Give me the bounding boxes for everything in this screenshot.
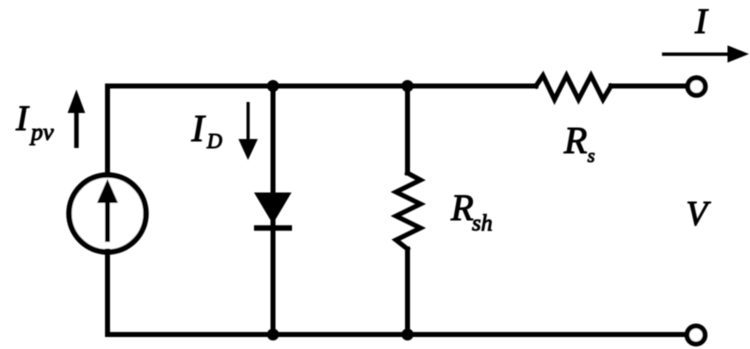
wire top rail <box>108 84 537 89</box>
node junction bottom shunt <box>402 329 414 341</box>
node junction bottom diode <box>267 329 279 341</box>
terminal top output <box>688 78 706 96</box>
arrow I_pv up <box>68 90 86 149</box>
resistor R_s <box>536 76 611 100</box>
node junction top shunt <box>402 80 414 92</box>
svg-text:s: s <box>588 146 595 167</box>
wire shunt branch lower <box>405 249 410 335</box>
current source U1 circle <box>69 175 146 252</box>
svg-text:R: R <box>563 120 587 162</box>
node junction top diode <box>267 80 279 92</box>
diode D1 <box>254 193 292 229</box>
terminal bottom output <box>687 326 705 344</box>
wire shunt branch upper <box>405 86 410 173</box>
svg-text:pv: pv <box>29 120 54 146</box>
svg-text:D: D <box>206 129 222 153</box>
svg-text:I: I <box>15 98 30 138</box>
wire top right to terminal <box>611 84 687 89</box>
wire diode branch <box>271 86 276 335</box>
wire bottom rail <box>108 332 686 337</box>
wire left vertical upper <box>105 86 110 176</box>
current source arrow <box>97 179 118 242</box>
svg-text:R: R <box>450 188 474 229</box>
wire left vertical lower <box>105 251 110 335</box>
svg-text:V: V <box>686 194 711 233</box>
resistor R_sh <box>396 173 421 249</box>
arrow I output right <box>662 45 749 62</box>
svg-text:I: I <box>191 108 207 150</box>
svg-text:sh: sh <box>472 211 492 236</box>
svg-text:I: I <box>694 1 709 41</box>
arrow I_D down <box>238 102 257 160</box>
